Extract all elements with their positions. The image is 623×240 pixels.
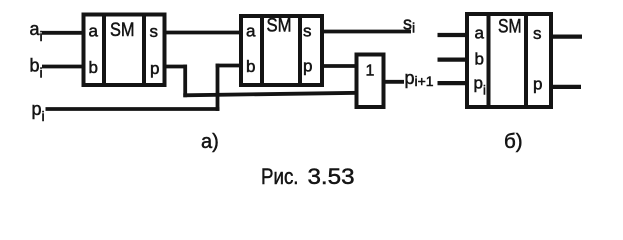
half-adder U1 body: [84, 15, 165, 86]
wire U2.p to OR gate input A: [322, 64, 358, 68]
svg-text:a: a: [246, 22, 256, 41]
V1 right pin-column divider: [524, 14, 528, 107]
U2 left pin-column divider: [260, 16, 264, 85]
svg-text:SM: SM: [498, 16, 522, 38]
svg-text:s: s: [150, 22, 159, 41]
wire p_i horizontal run: [46, 107, 220, 111]
wire carry run to OR gate input B: [183, 93, 358, 96]
svg-text:b: b: [89, 58, 98, 77]
wire U1.s to U2.a: [165, 31, 244, 35]
svg-text:a: a: [475, 24, 485, 43]
U2 right pin-column divider: [298, 16, 302, 85]
wire input a to V1.a: [438, 33, 470, 37]
wire a_i to U1.a: [42, 31, 85, 35]
svg-text:SM: SM: [267, 14, 292, 36]
svg-text:b: b: [246, 57, 255, 76]
wire V1.s output: [550, 34, 582, 38]
svg-text:b: b: [475, 50, 484, 69]
svg-text:б): б): [504, 130, 523, 153]
svg-text:p: p: [303, 57, 312, 76]
svg-text:p: p: [150, 59, 159, 78]
svg-text:SM: SM: [110, 19, 135, 41]
svg-text:1: 1: [366, 63, 375, 80]
wire riser to U2.b: [216, 64, 242, 68]
svg-text:3.53: 3.53: [308, 164, 355, 189]
svg-text:Рис.: Рис.: [261, 164, 299, 189]
wire G1 output to p_i+1: [384, 80, 405, 84]
V1 left pin-column divider: [487, 14, 491, 107]
wire input b to V1.b: [438, 57, 470, 61]
wire U1.p drop down: [183, 65, 187, 98]
U1 left pin-column divider: [102, 15, 106, 86]
half-adder U2 body: [241, 16, 322, 85]
U1 right pin-column divider: [142, 15, 146, 86]
wire input p_i to V1.p: [438, 81, 470, 85]
svg-text:p: p: [533, 75, 542, 94]
svg-text:s: s: [533, 24, 542, 43]
full adder V1 body: [467, 14, 551, 107]
wire U2.s to output s_i: [322, 30, 411, 34]
wire p_i riser up to U2.b row: [216, 64, 220, 111]
svg-text:a: a: [89, 22, 99, 41]
wire V1.p output: [550, 85, 581, 89]
wire b_i to U1.b: [42, 65, 85, 69]
svg-text:а): а): [201, 131, 219, 153]
svg-text:s: s: [303, 22, 312, 41]
OR gate G1 body: [357, 55, 384, 108]
wire U1.p stub right: [165, 65, 188, 69]
